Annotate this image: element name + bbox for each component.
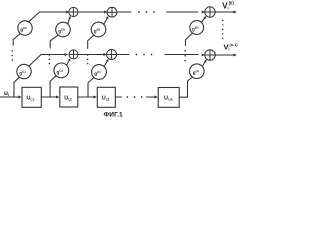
svg-text:ФИГ.1: ФИГ.1 [104,112,124,119]
svg-text:ui: ui [4,90,9,97]
